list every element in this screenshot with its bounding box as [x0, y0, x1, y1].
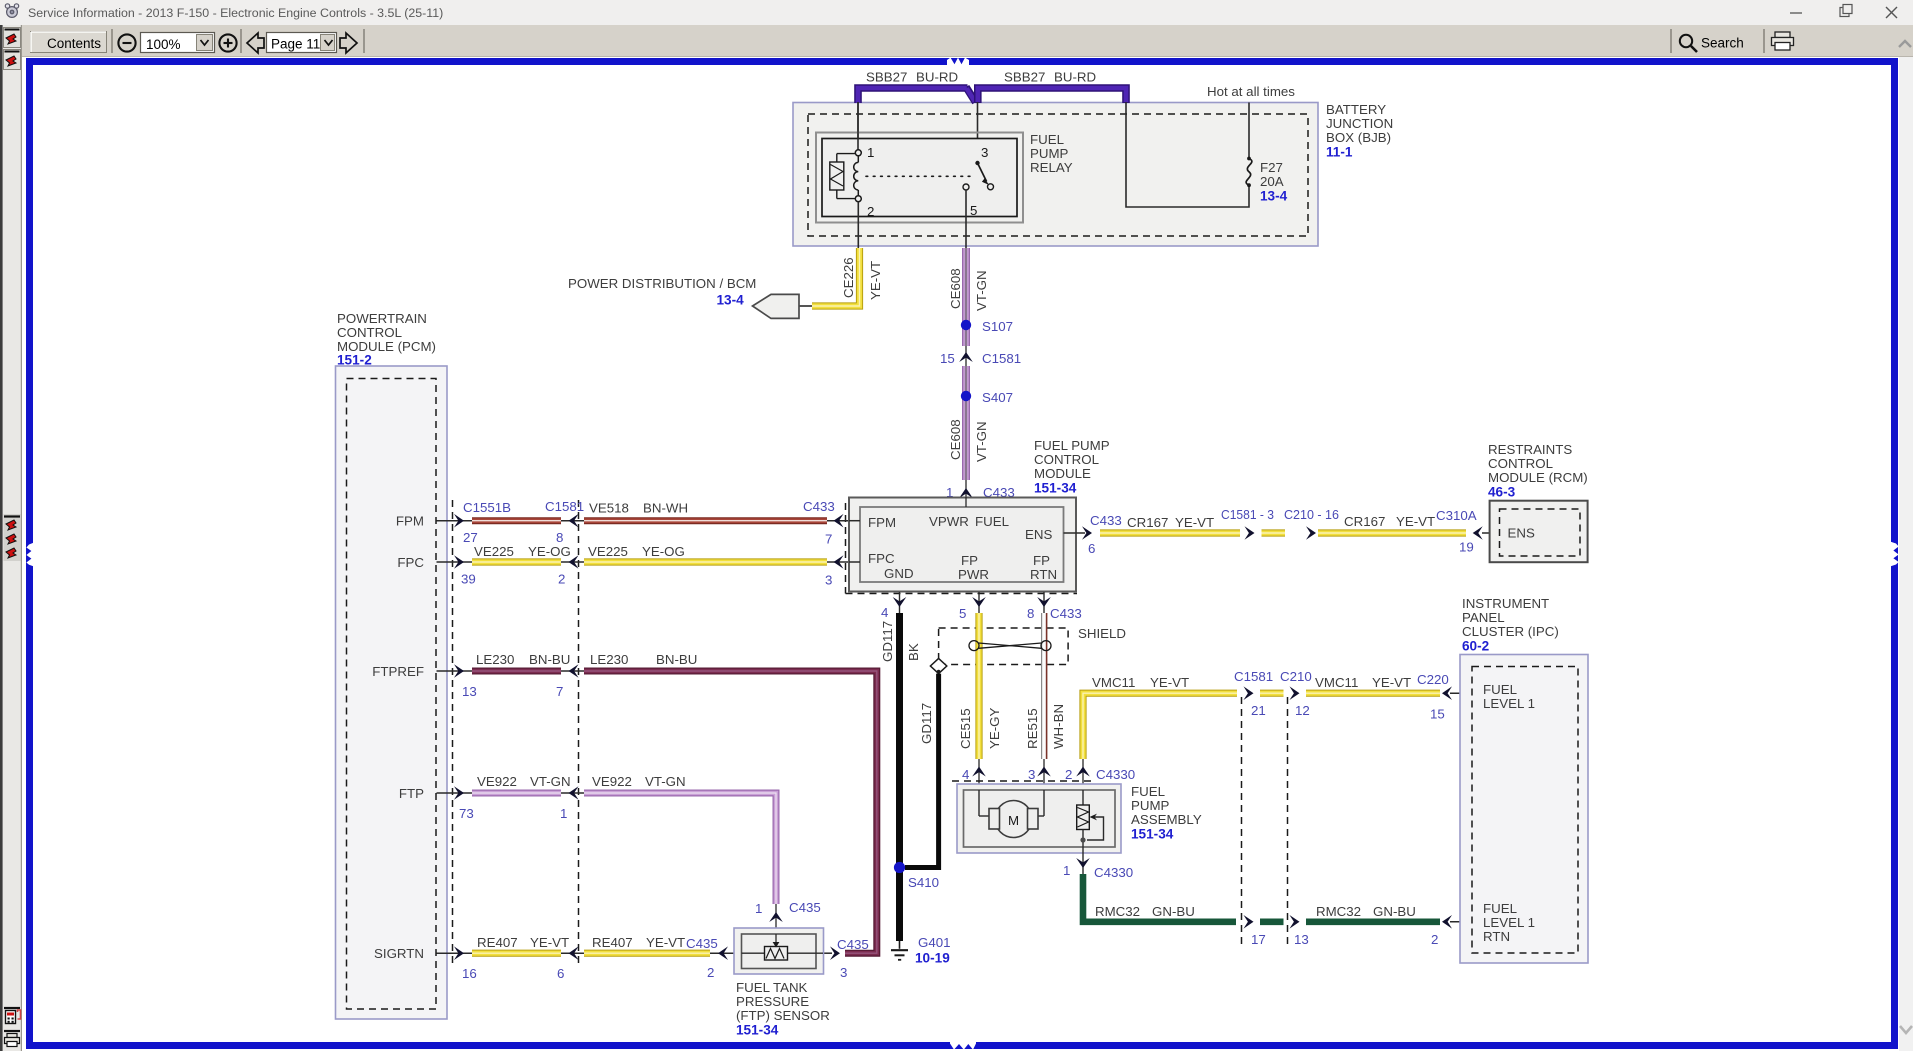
- shield dashed box: [939, 628, 1069, 665]
- svg-text:GND: GND: [884, 566, 914, 581]
- svg-text:19: 19: [1459, 540, 1474, 555]
- wire CE226 YE-VT: [812, 248, 860, 306]
- wire VMC11 YE-VT to C4330 pin 2: [1083, 693, 1237, 759]
- svg-text:C1551B: C1551B: [463, 500, 511, 515]
- svg-text:MODULE: MODULE: [1034, 466, 1091, 481]
- svg-text:CE226: CE226: [841, 257, 856, 298]
- fuel pump control module (FPCM) box: [849, 498, 1076, 592]
- search separator: [1670, 29, 1672, 53]
- svg-text:C210 - 16: C210 - 16: [1284, 507, 1339, 522]
- svg-text:10-19: 10-19: [915, 951, 950, 966]
- svg-text:LEVEL 1: LEVEL 1: [1483, 696, 1535, 711]
- svg-text:13: 13: [1294, 932, 1309, 947]
- fuel tank pressure (FTP) sensor box: [734, 928, 824, 974]
- connector C4330 pin 1: [1082, 847, 1084, 874]
- svg-text:POWER DISTRIBUTION / BCM: POWER DISTRIBUTION / BCM: [568, 276, 756, 291]
- BJB inner dashed boundary: [808, 114, 1308, 236]
- svg-text:BN-BU: BN-BU: [656, 652, 697, 667]
- dashed planes C1581/C210 lower: [1241, 697, 1243, 948]
- zoom in icon: [219, 34, 236, 51]
- svg-text:GN-BU: GN-BU: [1373, 904, 1416, 919]
- separator: [240, 29, 242, 53]
- svg-text:C220: C220: [1417, 672, 1449, 687]
- relay pin 1 terminal: [857, 102, 859, 150]
- svg-text:VT-GN: VT-GN: [645, 774, 686, 789]
- svg-text:YE-VT: YE-VT: [1175, 515, 1214, 530]
- svg-text:20A: 20A: [1260, 174, 1284, 189]
- svg-text:YE-VT: YE-VT: [1372, 675, 1411, 690]
- sidebar bookmark icons top: [4, 28, 21, 48]
- svg-text:8: 8: [556, 530, 563, 545]
- svg-text:SHIELD: SHIELD: [1078, 626, 1126, 641]
- svg-text:RESTRAINTS: RESTRAINTS: [1488, 442, 1572, 457]
- svg-text:VT-GN: VT-GN: [530, 774, 571, 789]
- battery junction box (BJB): [793, 103, 1318, 247]
- FTP sensor element: [742, 952, 766, 954]
- scrollbar up chevron: [1899, 41, 1911, 47]
- FTP circuit row: [437, 792, 473, 794]
- relay pin 2 terminal: [855, 196, 861, 202]
- Contents button: [31, 32, 107, 53]
- svg-text:C4330: C4330: [1094, 865, 1133, 880]
- wire VT-GN into VPWR: [965, 497, 967, 507]
- search icon: [1680, 35, 1692, 47]
- svg-text:2: 2: [558, 572, 565, 587]
- inline connector plane C433 at FPCM (dashed): [845, 503, 847, 594]
- svg-text:2: 2: [1065, 767, 1072, 782]
- svg-text:C435: C435: [686, 936, 718, 951]
- separator: [111, 29, 113, 53]
- splice S407: [961, 391, 971, 401]
- title bar: [0, 0, 1913, 25]
- FPC circuit row: [437, 561, 473, 563]
- svg-text:CR167: CR167: [1127, 515, 1168, 530]
- svg-text:6: 6: [1088, 541, 1095, 556]
- sidebar bottom icons: [4, 1007, 20, 1009]
- fuse F27 20A: [1246, 159, 1252, 186]
- wire VE922 VT-GN down to sensor: [584, 793, 776, 904]
- svg-text:FPC: FPC: [868, 551, 895, 566]
- connector C4330 pins 4,3,2: [978, 759, 980, 790]
- svg-text:C1581: C1581: [1234, 669, 1273, 684]
- svg-text:VE922: VE922: [592, 774, 632, 789]
- svg-text:GD117: GD117: [880, 621, 895, 662]
- relay actuation dotted link: [866, 175, 973, 177]
- svg-text:46-3: 46-3: [1488, 485, 1516, 500]
- wire LE230 BN-BU to FTP sensor: [584, 671, 877, 953]
- FTP sensor to maroon wire lead: [823, 952, 832, 954]
- wire inside BJB to fuse F27: [1126, 102, 1249, 207]
- svg-text:C1581: C1581: [545, 499, 584, 514]
- FPM circuit row: [437, 520, 473, 522]
- svg-text:PWR: PWR: [958, 567, 989, 582]
- zoom combo: [141, 33, 215, 53]
- svg-text:ASSEMBLY: ASSEMBLY: [1131, 812, 1202, 827]
- svg-text:VE922: VE922: [477, 774, 517, 789]
- svg-text:FP: FP: [1033, 553, 1050, 568]
- svg-text:VE225: VE225: [474, 544, 514, 559]
- svg-text:FTP: FTP: [399, 786, 424, 801]
- svg-text:151-2: 151-2: [337, 353, 372, 368]
- svg-text:YE-VT: YE-VT: [530, 935, 569, 950]
- svg-text:Contents: Contents: [47, 36, 101, 51]
- svg-text:S407: S407: [982, 390, 1013, 405]
- wire CE608 VT-GN upper: [962, 248, 970, 346]
- svg-text:FUEL: FUEL: [1131, 784, 1165, 799]
- svg-text:7: 7: [825, 532, 832, 547]
- C4330 dashed boundary: [952, 780, 1092, 782]
- svg-text:3: 3: [1028, 767, 1035, 782]
- svg-text:15: 15: [1430, 707, 1445, 722]
- inline connector plane C1581 (dashed): [578, 500, 580, 966]
- svg-text:YE-VT: YE-VT: [868, 261, 883, 300]
- svg-text:RTN: RTN: [1030, 567, 1057, 582]
- SIGRTN circuit row: [437, 952, 473, 954]
- wire inside BJB to relay pin 3: [977, 102, 979, 161]
- svg-text:S107: S107: [982, 319, 1013, 334]
- ENS pin 6 output: [1064, 532, 1086, 534]
- svg-text:YE-VT: YE-VT: [1396, 514, 1435, 529]
- svg-text:BATTERY: BATTERY: [1326, 102, 1386, 117]
- inline connectors C1581/C210 on RMC32: [1244, 915, 1254, 929]
- svg-text:1: 1: [755, 901, 762, 916]
- relay coil: [836, 154, 838, 162]
- border break top: [947, 58, 969, 67]
- printer icon: [1772, 32, 1794, 50]
- shield drain diamond: [930, 658, 946, 673]
- svg-text:CONTROL: CONTROL: [1488, 456, 1553, 471]
- svg-text:BU-RD: BU-RD: [1054, 70, 1096, 85]
- svg-text:Page 11: Page 11: [271, 37, 320, 52]
- svg-text:CONTROL: CONTROL: [1034, 452, 1099, 467]
- off-page connector POWER DISTRIBUTION / BCM: [796, 305, 812, 307]
- svg-text:BOX (BJB): BOX (BJB): [1326, 130, 1391, 145]
- svg-text:2: 2: [1431, 932, 1438, 947]
- svg-text:PANEL: PANEL: [1462, 610, 1505, 625]
- svg-text:C435: C435: [789, 900, 821, 915]
- svg-text:ENS: ENS: [1508, 526, 1535, 541]
- fuel pump assembly box: [957, 784, 1121, 853]
- shield drain wire GD117: [905, 674, 939, 868]
- relay switch pin 3 blade: [975, 161, 979, 165]
- zoom out icon: [118, 34, 135, 51]
- wire inside BJB to relay pin 1: [857, 102, 859, 150]
- connector C433 pin 1: [965, 480, 967, 506]
- svg-text:C4330: C4330: [1096, 767, 1135, 782]
- forward arrow icon: [340, 33, 357, 53]
- svg-text:VT-GN: VT-GN: [974, 421, 989, 462]
- svg-text:FPM: FPM: [396, 514, 424, 529]
- scrollbar down chevron: [1900, 1026, 1912, 1033]
- splice S410: [894, 862, 905, 873]
- svg-text:BK: BK: [906, 643, 921, 661]
- svg-text:FTPREF: FTPREF: [372, 664, 424, 679]
- svg-text:17: 17: [1251, 932, 1266, 947]
- inline connector C1581 pin 15: [965, 346, 967, 366]
- page combo: [267, 33, 337, 53]
- svg-text:BN-WH: BN-WH: [643, 501, 688, 516]
- svg-text:C310A: C310A: [1436, 508, 1477, 523]
- svg-text:SBB27: SBB27: [866, 70, 907, 85]
- svg-text:C1581 - 3: C1581 - 3: [1221, 507, 1274, 522]
- svg-text:1: 1: [1063, 863, 1070, 878]
- svg-text:FPM: FPM: [868, 515, 896, 530]
- svg-text:YE-VT: YE-VT: [1150, 675, 1189, 690]
- svg-text:FUEL PUMP: FUEL PUMP: [1034, 438, 1110, 453]
- svg-text:BN-BU: BN-BU: [529, 652, 570, 667]
- svg-text:VE225: VE225: [588, 544, 628, 559]
- svg-text:CE515: CE515: [958, 708, 973, 749]
- fuel pump motor M: [978, 790, 980, 816]
- svg-text:RE407: RE407: [592, 935, 633, 950]
- svg-text:5: 5: [959, 606, 966, 621]
- svg-text:LE230: LE230: [476, 652, 514, 667]
- svg-text:27: 27: [463, 530, 478, 545]
- svg-text:FUEL: FUEL: [1483, 682, 1517, 697]
- wire SBB27 BU-RD right segment: [978, 88, 1126, 103]
- svg-text:RMC32: RMC32: [1095, 904, 1140, 919]
- shield twisted pair symbol: [979, 643, 1042, 648]
- svg-text:ENS: ENS: [1025, 527, 1052, 542]
- svg-text:21: 21: [1251, 703, 1266, 718]
- svg-text:BU-RD: BU-RD: [916, 70, 958, 85]
- relay pin 5 terminal: [963, 184, 969, 190]
- toolbar: [0, 25, 1913, 57]
- svg-text:LEVEL 1: LEVEL 1: [1483, 915, 1535, 930]
- wire CE608 VT-GN mid: [962, 366, 970, 480]
- border break left: [26, 543, 34, 567]
- svg-text:2: 2: [867, 204, 874, 219]
- svg-text:C435: C435: [837, 937, 869, 952]
- separator: [363, 29, 365, 53]
- svg-text:3: 3: [840, 965, 847, 980]
- wire GD117 BK: [896, 613, 903, 941]
- svg-text:INSTRUMENT: INSTRUMENT: [1462, 596, 1549, 611]
- wire RE515 WH-BN: [1042, 613, 1046, 759]
- svg-text:SBB27: SBB27: [1004, 70, 1045, 85]
- svg-text:Hot at all times: Hot at all times: [1207, 84, 1295, 99]
- svg-text:C433: C433: [1090, 513, 1122, 528]
- svg-text:M: M: [1008, 813, 1019, 828]
- svg-text:60-2: 60-2: [1462, 639, 1490, 654]
- sidebar bookmark icons middle: [4, 514, 21, 561]
- back arrow icon: [247, 33, 264, 53]
- svg-text:GD117: GD117: [919, 703, 934, 744]
- svg-text:CONTROL: CONTROL: [337, 325, 402, 340]
- svg-text:RE407: RE407: [477, 935, 518, 950]
- inline connectors C1581/C210 on VMC11: [1244, 686, 1254, 700]
- inline connector plane C1551B (dashed): [452, 500, 454, 966]
- svg-text:RTN: RTN: [1483, 929, 1510, 944]
- svg-text:FP: FP: [961, 553, 978, 568]
- svg-text:CE608: CE608: [948, 268, 963, 309]
- svg-text:2: 2: [707, 965, 714, 980]
- svg-text:PUMP: PUMP: [1131, 798, 1170, 813]
- svg-text:3: 3: [825, 573, 832, 588]
- app icon: [5, 4, 18, 18]
- svg-text:RELAY: RELAY: [1030, 160, 1073, 175]
- window buttons: [1790, 12, 1802, 14]
- svg-text:12: 12: [1295, 703, 1310, 718]
- svg-text:CLUSTER (IPC): CLUSTER (IPC): [1462, 624, 1559, 639]
- svg-text:Service Information - 2013 F-1: Service Information - 2013 F-150 - Elect…: [28, 6, 443, 20]
- svg-text:GN-BU: GN-BU: [1152, 904, 1195, 919]
- svg-text:8: 8: [1027, 606, 1034, 621]
- fuel pump relay box: [816, 133, 1023, 223]
- svg-text:G401: G401: [918, 935, 951, 950]
- svg-text:4: 4: [962, 767, 969, 782]
- svg-text:YE-OG: YE-OG: [528, 544, 571, 559]
- svg-text:151-34: 151-34: [1034, 481, 1077, 496]
- svg-text:VMC11: VMC11: [1092, 675, 1135, 690]
- svg-text:FUEL: FUEL: [1483, 901, 1517, 916]
- svg-text:1: 1: [867, 145, 874, 160]
- svg-text:MODULE (RCM): MODULE (RCM): [1488, 470, 1588, 485]
- svg-text:VMC11: VMC11: [1315, 675, 1358, 690]
- right scrollbar strip: [1899, 57, 1913, 1051]
- svg-text:VT-GN: VT-GN: [974, 270, 989, 311]
- powertrain control module (PCM) box: [336, 366, 448, 1019]
- svg-text:LE230: LE230: [590, 652, 628, 667]
- svg-text:WH-BN: WH-BN: [1051, 704, 1066, 749]
- svg-text:C1581: C1581: [982, 351, 1021, 366]
- svg-text:11-1: 11-1: [1326, 145, 1353, 160]
- svg-text:C433: C433: [1050, 606, 1082, 621]
- wire RMC32 GN-BU: [1083, 874, 1236, 922]
- svg-text:F27: F27: [1260, 160, 1283, 175]
- svg-text:13-4: 13-4: [717, 293, 745, 308]
- svg-text:151-34: 151-34: [1131, 827, 1174, 842]
- svg-text:CE608: CE608: [948, 419, 963, 460]
- svg-text:Search: Search: [1701, 36, 1744, 51]
- svg-text:15: 15: [940, 351, 955, 366]
- FTPREF circuit row: [437, 670, 473, 672]
- svg-text:S410: S410: [908, 875, 939, 890]
- svg-text:151-34: 151-34: [736, 1023, 779, 1038]
- svg-text:RMC32: RMC32: [1316, 904, 1361, 919]
- svg-text:JUNCTION: JUNCTION: [1326, 116, 1393, 131]
- svg-text:YE-GY: YE-GY: [987, 707, 1002, 749]
- svg-text:13-4: 13-4: [1260, 189, 1288, 204]
- svg-text:FUEL: FUEL: [975, 514, 1009, 529]
- FPCM bottom pin arrows: [899, 592, 901, 613]
- svg-text:39: 39: [461, 572, 476, 587]
- svg-text:CR167: CR167: [1344, 514, 1385, 529]
- PCM inner dashed boundary: [347, 379, 437, 1010]
- border break right: [1890, 542, 1899, 567]
- svg-text:100%: 100%: [146, 37, 181, 52]
- svg-text:16: 16: [462, 966, 477, 981]
- svg-text:FUEL TANK: FUEL TANK: [736, 980, 808, 995]
- border break bottom: [950, 1041, 976, 1050]
- ground G401: [899, 941, 901, 949]
- svg-text:3: 3: [981, 145, 988, 160]
- svg-text:C433: C433: [803, 499, 835, 514]
- svg-text:C210: C210: [1280, 669, 1312, 684]
- svg-text:PUMP: PUMP: [1030, 146, 1069, 161]
- svg-text:RE515: RE515: [1025, 708, 1040, 749]
- splice S107: [961, 320, 971, 330]
- svg-text:SIGRTN: SIGRTN: [374, 946, 424, 961]
- svg-text:PRESSURE: PRESSURE: [736, 994, 809, 1009]
- svg-text:FPC: FPC: [397, 555, 424, 570]
- svg-text:4: 4: [881, 605, 888, 620]
- svg-text:1: 1: [560, 806, 567, 821]
- svg-text:13: 13: [462, 684, 477, 699]
- fuel level sender: [1082, 790, 1084, 805]
- wire SBB27 BU-RD left segment: [858, 88, 968, 103]
- svg-text:VPWR: VPWR: [929, 514, 969, 529]
- svg-text:FUEL: FUEL: [1030, 132, 1064, 147]
- svg-text:5: 5: [970, 203, 977, 218]
- svg-text:POWERTRAIN: POWERTRAIN: [337, 311, 427, 326]
- svg-text:VE518: VE518: [589, 501, 629, 516]
- left sidebar: [0, 25, 22, 1051]
- svg-text:YE-OG: YE-OG: [642, 544, 685, 559]
- svg-text:73: 73: [459, 806, 474, 821]
- connector C435 pin 1: [775, 904, 777, 928]
- svg-text:7: 7: [556, 684, 563, 699]
- FPM/FPC stubs into FPCM: [849, 520, 860, 522]
- svg-text:YE-VT: YE-VT: [646, 935, 685, 950]
- wire CE515 YE-GY: [975, 613, 982, 759]
- svg-text:(FTP) SENSOR: (FTP) SENSOR: [736, 1008, 830, 1023]
- svg-text:6: 6: [557, 966, 564, 981]
